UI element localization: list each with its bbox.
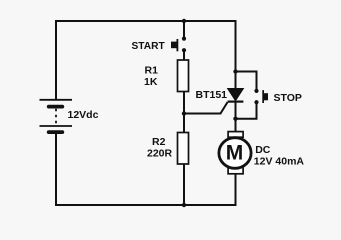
battery B1 12Vdc [40, 100, 73, 134]
svg-text:1K: 1K [144, 76, 158, 88]
svg-text:220R: 220R [147, 148, 173, 160]
wire battery negative lead [55, 132, 57, 206]
node anode junction [233, 69, 237, 73]
svg-text:R2: R2 [152, 136, 166, 148]
wire stop branch top [236, 72, 257, 90]
wire R2 to bottom rail [183, 163, 185, 205]
svg-text:START: START [132, 41, 166, 52]
node top junction [182, 19, 186, 23]
wire bottom rail [55, 204, 237, 206]
motor M (DC 12V 40mA) [219, 132, 251, 174]
wire R1 to R2 [183, 91, 185, 133]
wire cathode segment [235, 101, 237, 134]
wire stop branch bottom [236, 103, 257, 119]
node cathode junction [233, 117, 237, 121]
node R1-R2 gate junction [182, 111, 186, 115]
resistor R2 [178, 133, 189, 165]
switch START (push button) [171, 37, 186, 53]
wire switch to R1 [183, 51, 185, 61]
wire gate [184, 102, 228, 114]
wire top rail [55, 20, 237, 22]
svg-text:DC: DC [255, 144, 271, 156]
svg-text:BT151: BT151 [196, 89, 228, 101]
svg-text:R1: R1 [145, 65, 159, 77]
svg-text:12V 40mA: 12V 40mA [254, 156, 305, 168]
wire motor to bottom rail [235, 172, 237, 205]
wire left rail (battery + lead) [55, 20, 57, 100]
wire anode branch [235, 20, 237, 90]
wire start branch drop [183, 21, 185, 37]
svg-text:M: M [226, 141, 244, 164]
thyristor BT151 (SCR) [228, 89, 244, 102]
svg-text:12Vdc: 12Vdc [68, 109, 99, 121]
resistor R1 [178, 60, 189, 92]
switch STOP (push button) [254, 89, 268, 104]
svg-text:STOP: STOP [274, 92, 302, 104]
node bottom rail junction [182, 203, 186, 207]
